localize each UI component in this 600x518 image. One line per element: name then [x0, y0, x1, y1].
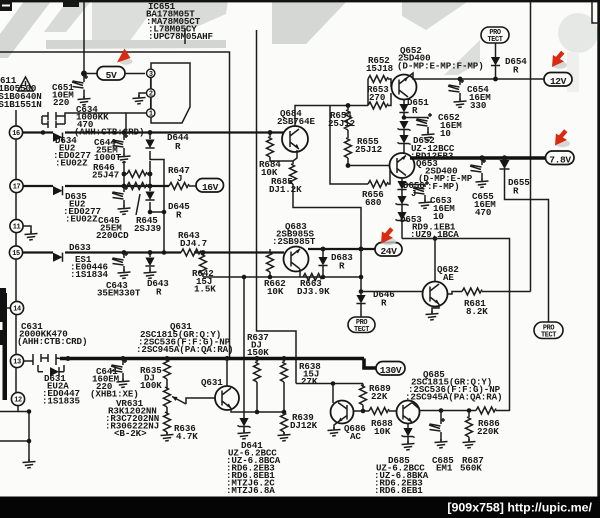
node bus junctions: [66, 356, 71, 361]
svg-text:13: 13: [13, 359, 21, 367]
svg-text:16V: 16V: [202, 182, 219, 193]
resistor R643: [178, 230, 207, 256]
left edge connector bar: [0, 288, 6, 322]
wire Q631 emitter to row412: [231, 408, 284, 412]
svg-text:5V: 5V: [106, 70, 117, 81]
svg-text:R: R: [156, 287, 162, 298]
wire Q682 emitter to ground: [432, 304, 439, 313]
svg-text:1.5K: 1.5K: [194, 284, 216, 295]
12V oval label: [544, 73, 572, 88]
svg-text:[909x758] http://upic.me/: [909x758] http://upic.me/: [447, 501, 592, 515]
svg-text:15J18: 15J18: [366, 63, 394, 74]
svg-text:R: R: [513, 186, 519, 197]
svg-text::2SB985T: :2SB985T: [272, 236, 316, 247]
svg-text:25J12: 25J12: [355, 144, 382, 155]
capacitor C645: [96, 186, 129, 241]
svg-text:DJ1.2K: DJ1.2K: [269, 184, 302, 195]
resistor R663: [297, 274, 330, 298]
wire main thick bus y=358.5: [60, 357, 364, 361]
svg-text::RD6.8EB1: :RD6.8EB1: [374, 485, 423, 496]
svg-text:10K: 10K: [374, 426, 391, 437]
diode chain D656: [395, 178, 424, 212]
svg-text:<B-2K>: <B-2K>: [114, 428, 147, 439]
wire Q684 emitter down: [293, 150, 297, 161]
svg-text:TECT: TECT: [541, 332, 556, 340]
right border line: [597, 0, 600, 518]
resistor R654: [328, 103, 355, 130]
resistor R638: [281, 359, 322, 415]
ground pin11: [25, 231, 38, 240]
svg-text::F-MP): :F-MP): [427, 181, 459, 192]
capacitor C634: [42, 104, 144, 138]
svg-text:14: 14: [13, 306, 21, 314]
130V oval label: [364, 359, 405, 377]
wire row y=384 top of Q686: [296, 383, 363, 385]
svg-text::2SC945A(PA:QA:RA): :2SC945A(PA:QA:RA): [405, 392, 502, 403]
ground below C651: [78, 96, 91, 105]
pin 15: [9, 246, 22, 259]
capacitor C644: [94, 130, 128, 163]
watermark 2007: [0, 0, 598, 92]
svg-text:(AHH:CTB:CRD): (AHH:CTB:CRD): [17, 336, 87, 347]
transistor Q652: [392, 45, 484, 100]
wire x=361 column down: [360, 249, 362, 292]
ground below C645: [118, 206, 131, 215]
wire left loop x=330: [330, 106, 368, 185]
svg-text:2SB764E: 2SB764E: [277, 116, 315, 127]
wire pin14 stub: [6, 307, 11, 309]
pin 12: [11, 392, 24, 405]
wire pin2 to ground: [139, 93, 147, 97]
svg-text:560K: 560K: [460, 463, 482, 474]
diode D643: [144, 250, 170, 297]
svg-text:24V: 24V: [380, 246, 397, 257]
svg-text:12V: 12V: [550, 76, 567, 87]
top-right corner bracket: [592, 2, 600, 23]
svg-text:D633: D633: [69, 242, 91, 253]
svg-text:220K: 220K: [477, 426, 499, 437]
svg-text:(D-MP:E-MP:F-MP): (D-MP:E-MP:F-MP): [397, 61, 484, 72]
leader line IC651: [184, 28, 186, 44]
left pin bus vertical: [15, 110, 17, 393]
svg-text:11: 11: [13, 224, 21, 232]
resistor R653: [367, 84, 391, 109]
svg-text::1S1835: :1S1835: [42, 396, 80, 407]
resistor R652: [366, 55, 394, 106]
transistor Q684: [277, 108, 315, 152]
svg-text::2SC945A(PA:QA:RA): :2SC945A(PA:QA:RA): [136, 344, 233, 355]
svg-text:AC: AC: [350, 431, 361, 442]
wire bus 15 y=252.5: [23, 251, 284, 253]
wire y=277 row: [203, 276, 361, 278]
svg-text:150K: 150K: [247, 347, 269, 358]
node x=244 y=277: [242, 275, 247, 280]
node Q684 base: [268, 130, 273, 135]
potentiometer VR631: [105, 379, 215, 439]
red arrow at 7.8V: [555, 131, 570, 148]
svg-text:J: J: [177, 173, 182, 184]
wire pin1 left and down to bus: [126, 113, 147, 133]
wire Q685 collector row 411: [412, 403, 476, 411]
svg-text:TECT: TECT: [354, 326, 369, 334]
resistor R646 pair: [92, 161, 152, 186]
capacitor C655: [470, 155, 496, 218]
resistor R656: [362, 170, 390, 208]
long vertical x=530 right: [530, 2, 532, 292]
svg-text:DJ4.7: DJ4.7: [180, 238, 207, 249]
resistor R686: [476, 407, 510, 437]
diode D635: [53, 186, 101, 224]
wire bus 17 y=186: [23, 185, 169, 187]
svg-text:2SJ39: 2SJ39: [134, 223, 161, 234]
wire pin13 row: [24, 360, 30, 362]
diode D645: [145, 186, 190, 253]
node 24V junction x=361: [359, 247, 364, 252]
svg-text::UPC78M05AHF: :UPC78M05AHF: [148, 31, 213, 42]
svg-text:100K: 100K: [140, 380, 162, 391]
diode D655: [500, 155, 549, 322]
node junction x=164 on bus15: [162, 250, 167, 255]
resistor R655: [345, 130, 383, 168]
svg-text:270: 270: [369, 92, 385, 103]
resistor R681: [448, 288, 531, 317]
resistor R647: [168, 165, 196, 190]
wire Q683 collector to row277: [299, 269, 301, 277]
node 5V junction: [81, 71, 87, 77]
diode D685 zener: [374, 424, 429, 497]
resistor R642: [192, 250, 216, 294]
warning triangle: [18, 77, 33, 91]
svg-text:25J12: 25J12: [328, 118, 355, 129]
svg-text:7.8V: 7.8V: [549, 155, 571, 166]
capacitor C652: [404, 112, 462, 141]
resistor R635: [140, 359, 171, 392]
capacitor C641: [90, 359, 139, 400]
long vertical x=256: [257, 30, 297, 384]
diode D646: [356, 289, 394, 317]
pin 16: [9, 126, 22, 139]
diode D633: [53, 242, 108, 280]
svg-text:AE: AE: [443, 272, 454, 283]
resistor R684: [259, 133, 293, 179]
wire bus 16 y=132.5: [23, 131, 283, 133]
red arrow at 5V: [117, 49, 133, 65]
svg-text::EU02Z: :EU02Z: [55, 158, 88, 169]
resistor R636: [161, 407, 199, 442]
resistor R689: [360, 383, 391, 413]
svg-text:220: 220: [53, 97, 69, 108]
resistor R637: [247, 332, 269, 414]
text 611 diode list: [0, 75, 42, 110]
svg-text:DJ12K: DJ12K: [290, 420, 318, 431]
PRO TECT oval mid: [348, 317, 375, 334]
transistor Q631 type list: [136, 321, 233, 355]
wire Q686 base row: [354, 410, 370, 412]
pin 13: [10, 354, 23, 367]
wire pin12 stubs and ground: [0, 406, 36, 468]
svg-text:25J47: 25J47: [92, 170, 119, 181]
svg-text::EU02Z: :EU02Z: [65, 214, 98, 225]
PRO TECT oval top: [481, 27, 509, 44]
pin 11: [10, 219, 23, 232]
resistor R645 on bus: [122, 183, 161, 235]
svg-text:Q631: Q631: [201, 377, 223, 388]
diode D683: [318, 247, 353, 280]
svg-text:R: R: [381, 298, 387, 309]
pin 3: [147, 69, 155, 79]
diode D631: [38, 365, 80, 407]
svg-text:2200CD: 2200CD: [96, 230, 129, 241]
resistor R688: [369, 408, 397, 438]
transistor Q653: [390, 153, 473, 192]
capacitor C651: [52, 74, 88, 109]
svg-text:R: R: [175, 141, 181, 152]
svg-text:8.2K: 8.2K: [466, 306, 488, 317]
wire Q682 collector up to row238: [434, 239, 436, 282]
frame line top: [0, 52, 230, 359]
svg-text:17: 17: [13, 184, 21, 192]
wire Q653 base row: [348, 165, 390, 167]
diode D654: [491, 43, 527, 81]
pin 1: [147, 109, 155, 119]
wire Q653 emitter to 7.8V rail: [410, 156, 546, 160]
svg-text:15: 15: [12, 250, 20, 258]
svg-text:R: R: [513, 65, 519, 76]
resistor R662: [264, 249, 286, 297]
transistor Q686: [331, 401, 366, 443]
16V oval label: [196, 179, 224, 194]
diode D641 zener: [226, 359, 281, 497]
svg-text::S1B1551N: :S1B1551N: [0, 99, 42, 110]
svg-text:1: 1: [149, 111, 153, 119]
pin 17: [10, 179, 23, 192]
capacitor C643: [97, 250, 141, 298]
svg-text:680: 680: [365, 197, 381, 208]
transistor Q683: [272, 221, 316, 272]
svg-text:4.7K: 4.7K: [176, 431, 198, 442]
wire 24V rail: [308, 248, 375, 250]
wire: vertical input x=84 from top: [83, 2, 85, 74]
svg-text:10K: 10K: [267, 286, 284, 297]
wire pin11 to ground: [23, 226, 31, 233]
24V oval label: [375, 243, 402, 258]
svg-text:DJ3.9K: DJ3.9K: [297, 286, 330, 297]
red arrow at 24V: [381, 229, 396, 246]
wire Q686 emitter ground: [334, 422, 338, 429]
capacitor C631: [17, 321, 87, 365]
svg-text:EM1: EM1: [436, 463, 453, 474]
transistor Q685 type list: [405, 369, 502, 403]
svg-text:10: 10: [433, 211, 444, 222]
svg-text:D651: D651: [407, 97, 429, 108]
svg-text::1S1834: :1S1834: [70, 269, 108, 280]
transistor Q631: [201, 377, 239, 410]
7.8V oval label: [546, 151, 575, 166]
wire Q652 emitter to 12V rail: [408, 73, 545, 79]
wire Q631 collector: [226, 359, 228, 387]
red arrow at 12V: [552, 52, 567, 69]
svg-text:35EM330T: 35EM330T: [97, 288, 141, 299]
svg-text:R: R: [412, 105, 418, 116]
svg-text:470: 470: [475, 207, 491, 218]
capacitor C653: [400, 181, 456, 222]
svg-text:12: 12: [14, 397, 22, 405]
diode D652 zener: [397, 115, 454, 161]
capacitor C654: [448, 77, 491, 111]
resistor R639: [278, 412, 318, 441]
transistor Q682: [423, 264, 459, 307]
wire row y=238: [402, 239, 510, 412]
svg-text:27K: 27K: [301, 376, 318, 387]
diode D634: [41, 130, 91, 168]
svg-text::MTZJ6.8A: :MTZJ6.8A: [226, 485, 275, 496]
wire Q686 collector up: [332, 384, 334, 404]
capacitor C685: [429, 411, 454, 474]
svg-text:R: R: [176, 210, 182, 221]
svg-text:130V: 130V: [380, 365, 402, 376]
ground at pin2: [133, 95, 146, 104]
wire long vertical x=244: [243, 277, 245, 359]
svg-text:R: R: [339, 261, 345, 272]
svg-text:16: 16: [12, 130, 20, 138]
diode chain D651: [399, 97, 429, 119]
ground below C644: [118, 154, 131, 163]
PRO TECT oval right: [534, 322, 563, 340]
svg-text:330: 330: [470, 100, 486, 111]
diode D644: [145, 130, 189, 212]
corner glyph top-left: [0, 0, 79, 11]
top border line: [0, 0, 600, 2]
svg-text:10: 10: [440, 128, 451, 139]
svg-text:TECT: TECT: [488, 36, 503, 44]
IC651 regulator text: [146, 1, 213, 42]
svg-text:22K: 22K: [371, 391, 388, 402]
bottom black banner: [0, 497, 600, 518]
wire pin3-pin2-pin1: [150, 78, 152, 109]
wire Q684 collector up: [295, 106, 368, 127]
5V oval label: [87, 67, 145, 82]
resistor R687: [460, 411, 484, 474]
pin 14: [10, 301, 23, 314]
wire Q682 base row: [361, 291, 423, 293]
diode D653 zener: [395, 212, 459, 240]
op-amp/regulator IC651 outline: [151, 63, 190, 123]
svg-text:D655: D655: [508, 177, 530, 188]
transistor Q685: [397, 401, 420, 424]
pin 2: [147, 89, 155, 99]
resistor R685: [269, 161, 361, 251]
